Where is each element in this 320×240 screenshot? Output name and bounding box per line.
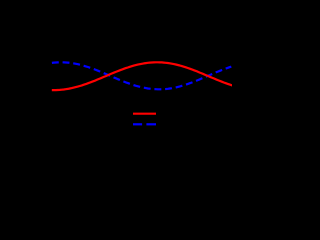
plot background (0, 0, 232, 196)
legend red solid line (133, 113, 156, 115)
blue dashed cosine curve (52, 62, 231, 89)
red solid sine curve (52, 62, 232, 90)
legend blue dashed line (133, 123, 142, 125)
